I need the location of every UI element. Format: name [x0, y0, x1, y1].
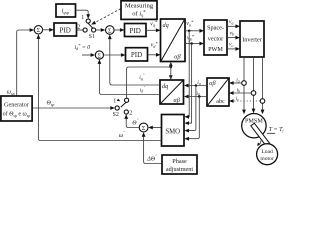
- svg-text:adjustment: adjustment: [166, 166, 193, 173]
- descender wire v_alpha* to SMO input 1: [188, 31, 191, 117]
- svg-text:2: 2: [77, 25, 80, 31]
- svg-text:Σ: Σ: [98, 53, 102, 59]
- summing node SUM3: [95, 51, 103, 59]
- block Phase adjustment: [162, 155, 197, 174]
- svg-text:ib: ib: [237, 87, 241, 93]
- feedback wire i_q_hat from DQ2 to SUM2: [108, 35, 160, 86]
- svg-text:2: 2: [129, 110, 132, 116]
- svg-text:S1: S1: [89, 34, 95, 40]
- dashed control link from Measuring box to S1 lever: [93, 9, 121, 24]
- svg-text:ωsp: ωsp: [7, 89, 15, 95]
- tap wires i_a i_b i_c to alphabeta/abc block: [229, 77, 260, 103]
- svg-text:S2: S2: [113, 112, 119, 118]
- wire i_alpha to DQ2: [184, 80, 207, 87]
- svg-text:iqˆ: iqˆ: [139, 73, 144, 81]
- label id*=0 input wire to SUM3: [75, 43, 96, 57]
- svg-text:Θsp: Θsp: [47, 101, 55, 107]
- wire i_qsp box to switch S1 contact 1: [76, 10, 89, 15]
- svg-text:PWM: PWM: [208, 46, 223, 53]
- svg-text:vc: vc: [229, 42, 233, 48]
- svg-text:T = Tl: T = Tl: [269, 127, 285, 133]
- svg-text:Phase: Phase: [172, 158, 187, 165]
- svg-text:of Θsp e ωsp: of Θsp e ωsp: [3, 111, 31, 118]
- transform block dq->alphabeta DQ1: [161, 19, 186, 62]
- shaft rod between PMSM and load motor: [251, 123, 270, 147]
- svg-text:ΔΘˆ: ΔΘˆ: [146, 154, 157, 162]
- reference box i_qsp: [56, 4, 76, 17]
- PID controller PID2 (q current): [125, 24, 147, 37]
- wire SUM3 to PID3: [104, 54, 121, 56]
- motor PMSM circle: [242, 114, 266, 138]
- svg-text:1: 1: [81, 15, 84, 21]
- switch S2: [113, 98, 133, 118]
- svg-text:Σ: Σ: [142, 126, 146, 132]
- box Measuring of iq*: [121, 1, 157, 20]
- svg-text:PID: PID: [60, 26, 71, 34]
- svg-text:vector: vector: [208, 35, 223, 42]
- wire i_beta to DQ2: [184, 91, 207, 99]
- svg-text:vβ*: vβ*: [187, 34, 195, 42]
- svg-text:Generator: Generator: [4, 101, 29, 108]
- svg-text:vb: vb: [230, 30, 234, 36]
- three phase wires inverter to PMSM: [243, 57, 245, 110]
- svg-text:PID: PID: [131, 51, 142, 59]
- rotation arrow at shaft: [258, 140, 261, 145]
- descender wire i_beta to SMO input 4: [189, 97, 200, 139]
- descender wire i_alpha to SMO input 3: [189, 86, 196, 131]
- svg-text:1: 1: [113, 99, 116, 105]
- svg-text:ωˆ: ωˆ: [119, 131, 125, 139]
- block SMO observer: [162, 115, 185, 147]
- PID controller PID3 (d current): [126, 48, 148, 61]
- svg-text:idˆ: idˆ: [140, 85, 145, 93]
- transform block alphabeta->abc: [207, 78, 229, 106]
- wires v_a v_b v_c SVPWM to Inverter: [227, 19, 240, 51]
- label vq* and wire PID2 to dq1: [146, 20, 161, 33]
- svg-text:ia: ia: [236, 77, 240, 83]
- wire v_beta* DQ1 to SVPWM: [185, 34, 204, 45]
- block Space-vector PWM: [204, 20, 227, 55]
- svg-text:dq: dq: [163, 22, 169, 29]
- wire SUM1 to PID1: [43, 29, 50, 31]
- svg-text:Measuring: Measuring: [125, 3, 154, 10]
- svg-text:dq: dq: [162, 83, 168, 90]
- svg-text:Load: Load: [261, 149, 273, 155]
- svg-text:Σ: Σ: [108, 28, 112, 34]
- label vd* and wire PID3 to dq1: [148, 41, 161, 57]
- svg-text:abc: abc: [216, 99, 225, 105]
- svg-text:Θˆ: Θˆ: [132, 118, 138, 126]
- svg-text:αβ: αβ: [209, 80, 216, 87]
- block Generator of theta_sp and omega_sp: [1, 96, 32, 121]
- summing node SUM2: [106, 26, 115, 35]
- wire S1 common to SUM2: [96, 29, 101, 31]
- svg-text:vq*: vq*: [150, 20, 158, 28]
- summing node SUM1: [34, 26, 42, 35]
- svg-text:vd*: vd*: [151, 41, 159, 49]
- feedback wire i_d_hat from DQ2 to SUM3: [98, 59, 161, 94]
- svg-text:PID: PID: [130, 27, 141, 35]
- svg-text:αβ: αβ: [174, 54, 181, 61]
- wire omega_sp from generator up to summing node S: [17, 30, 31, 96]
- switch S1: [77, 15, 95, 40]
- svg-text:Space-: Space-: [207, 25, 224, 32]
- svg-text:SMO: SMO: [165, 129, 180, 136]
- transform block dq2 alphabeta->dq: [160, 80, 184, 104]
- theta angle wire from S2 to both dq blocks, double arrow: [127, 67, 171, 98]
- descender wire v_beta* to SMO input 2: [189, 44, 192, 124]
- svg-text:αβ: αβ: [174, 97, 181, 104]
- svg-text:va: va: [229, 19, 233, 25]
- PID controller PID1 (speed): [54, 23, 77, 36]
- wire theta_hat_corrected from SUM4 up to S2 contact 2: [126, 118, 139, 127]
- block Inverter: [240, 21, 264, 57]
- wire PID1 to switch S1 contact 2: [77, 29, 83, 31]
- current sensor circles on phase lines: [242, 81, 247, 86]
- wire v_alpha* DQ1 to SVPWM: [185, 19, 204, 32]
- svg-text:Σ: Σ: [37, 28, 41, 34]
- wire SUM2 to PID2: [114, 29, 120, 31]
- svg-text:PMSM: PMSM: [245, 118, 263, 125]
- svg-text:Inverter: Inverter: [242, 36, 262, 43]
- load motor circle: [257, 144, 278, 165]
- svg-text:motor: motor: [260, 156, 273, 162]
- summing node SUM4: [139, 123, 148, 132]
- svg-text:vα*: vα*: [186, 19, 194, 27]
- svg-text:id* = 0: id* = 0: [75, 43, 91, 51]
